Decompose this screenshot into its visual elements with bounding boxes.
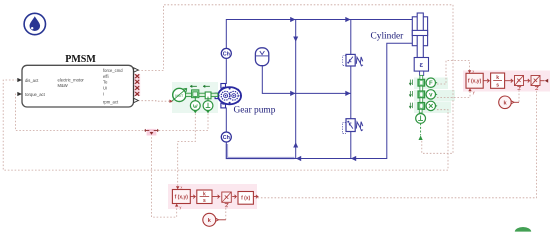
junction arrow mid line at V1 [345,91,350,96]
speed source MoT [171,88,187,102]
relief valve V1 [343,54,363,66]
svg-text:y: y [180,206,182,210]
highlight zone right control chain [463,71,550,92]
wire hydraulic center vertical [295,20,297,159]
shaft arrow label right [203,85,210,87]
junction node torque line [145,129,158,136]
svg-text:rpm_act: rpm_act [103,100,119,105]
svg-text:f (x): f (x) [241,196,251,202]
wire pump bottom to check valve Ch2 [225,108,227,133]
svg-text:y: y [473,90,475,94]
wire relief valve V2 branch [350,93,352,158]
product block P1 [505,76,524,90]
function block f3 f(x,y) [466,69,483,94]
junction arrow center down [293,37,298,42]
junction arrow center up [293,142,298,147]
constant k1 [203,213,226,226]
wire k1 constant to product bottom [225,206,227,220]
junction arrow bottom line center [296,156,301,161]
product block P2 [524,76,540,90]
wire relief valve V1 branch [350,20,352,94]
gear G1 [205,92,211,99]
svg-text:force_cmd: force_cmd [103,68,123,73]
accumulator [255,48,268,66]
svg-text:torque_act: torque_act [25,92,46,97]
svg-text:f (x,y): f (x,y) [468,79,482,85]
load force source FL [416,109,426,140]
svg-text:I: I [103,92,104,97]
svg-text:f (x,y): f (x,y) [175,194,189,200]
product block M1 [212,192,231,207]
function block f2 f(x) [232,192,258,205]
wire pump top to check valve Ch1 [225,59,227,85]
shaft arrow label left [190,85,197,87]
svg-text:x: x [181,186,183,190]
svg-text:Ui: Ui [103,86,107,91]
speed sensor W1 [190,97,200,114]
integrator block I2 k/s [483,73,504,89]
wire hydraulic top line [226,20,412,49]
motor block PMSM [22,54,134,107]
highlight zone green drive [172,82,218,113]
wire position sensor to dis_act [3,80,448,170]
svg-text:Te: Te [103,80,108,85]
side label arrows sensors [409,80,412,109]
svg-text:s: s [203,198,206,204]
output ports PMSM [134,68,139,103]
wire hydraulic bottom line [226,43,412,158]
junction arrow top line right [290,17,295,22]
svg-text:x: x [472,69,474,73]
svg-text:F: F [429,81,433,87]
wire force sensor to f3 top input [437,61,470,85]
inertia J1 [192,90,199,98]
svg-text:Ch: Ch [223,52,230,58]
wire hydraulic bottom line thick part [227,144,295,158]
torque sensor T1 [203,97,213,114]
piston position block E1 [414,58,428,76]
output arrow chain2 [540,79,548,83]
unconnected port marks [134,74,140,96]
function block f1 f(x,y) [172,186,190,210]
wire force_cmd loop top [138,5,453,154]
junction arrow mid line center [290,91,295,96]
wire accumulator branch line [262,66,351,94]
logo [24,13,45,34]
svg-text:PMSM: PMSM [65,54,96,65]
wire k2 constant to product P1 bottom [518,90,520,102]
svg-text:effi: effi [103,74,109,79]
wire f4 output to product P2 bottom [258,89,537,198]
svg-text:M&W: M&W [58,83,68,88]
svg-text:Ch: Ch [223,135,230,141]
wire torque sensor to torque_act [15,94,208,130]
svg-text:Gear pump: Gear pump [234,106,276,116]
junction arrow bottom line at V2 [351,156,356,161]
junction arrow top line at V1 [345,17,350,22]
svg-text:dis_act: dis_act [25,78,39,83]
force sensor FS1 [418,75,438,87]
integrator block I1 k/s [191,190,213,204]
wire torque branch to f1 bottom input [152,130,177,217]
input arrow into MoT [169,100,173,103]
wire rpm_act to speed source [138,100,170,103]
svg-text:MoT: MoT [175,93,184,98]
svg-text:ε: ε [420,60,424,69]
check valve Ch1 [221,48,231,58]
highlight zone cylinder sensors [414,78,455,114]
svg-text:electric_motor: electric_motor [58,77,85,82]
check valve Ch2 [221,132,231,142]
decorative green hill [515,227,531,232]
position sensor PS1 [418,98,438,111]
wire velocity sensor to f3 bottom input [437,91,470,98]
svg-text:Cylinder: Cylinder [371,31,405,41]
constant k2 [499,96,519,109]
velocity sensor VS1 [418,86,438,99]
wire speed sensor to f1 top input [178,114,196,187]
input port torque_act [17,92,22,96]
highlight zone bottom control chain [168,184,257,209]
gear pump [215,84,242,108]
input port dir_act [17,78,22,82]
cylinder [412,13,427,58]
svg-text:s: s [496,83,499,89]
relief valve V2 [343,119,364,134]
shaft [186,93,218,96]
